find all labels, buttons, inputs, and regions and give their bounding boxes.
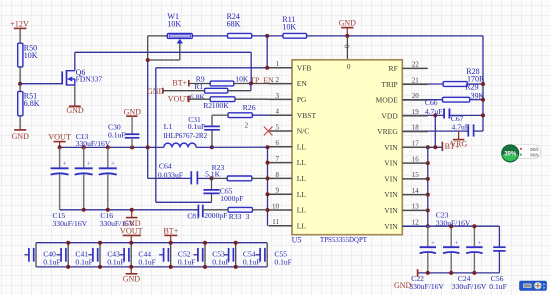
- capacitor C66: [402, 114, 444, 116]
- svg-text:GND: GND: [339, 18, 357, 27]
- svg-text:C64: C64: [159, 161, 172, 170]
- polarized cap at 451.2 right bank: [450, 226, 452, 247]
- capacitor C64: [190, 171, 192, 184]
- svg-text:16: 16: [412, 155, 420, 163]
- wire VFB left line: [156, 67, 267, 69]
- wire gate to Q6: [20, 83, 62, 85]
- svg-text:LL: LL: [297, 142, 307, 151]
- svg-text:17: 17: [412, 140, 420, 148]
- wire right bank bottom bus: [418, 272, 500, 274]
- svg-text:U5: U5: [292, 235, 302, 244]
- svg-text:VIN: VIN: [384, 190, 398, 199]
- pin 3 PG: [269, 98, 293, 100]
- capacitor C81: [197, 205, 199, 218]
- op-amp U5 TPS53355DQPT body: [292, 60, 402, 235]
- pin 4 VBST: [269, 114, 293, 116]
- pin 2 EN: [269, 83, 293, 85]
- capacitor C44: [123, 248, 125, 262]
- resistor R1: [163, 90, 205, 92]
- svg-text:1000pF: 1000pF: [220, 194, 243, 203]
- svg-text:TP_EN: TP_EN: [250, 75, 274, 84]
- svg-text:0K/s: 0K/s: [530, 147, 538, 152]
- svg-text:R1: R1: [194, 82, 203, 91]
- svg-text:C81: C81: [187, 211, 200, 220]
- overlay speed widget: [501, 144, 541, 163]
- svg-text:10: 10: [272, 202, 280, 210]
- wire bank tie x=68.2: [67, 243, 69, 267]
- pin 19 VDD: [402, 115, 428, 117]
- svg-text:LL: LL: [297, 221, 307, 230]
- svg-text:0K/s: 0K/s: [530, 153, 538, 158]
- polarized cap at 107.8: [107, 147, 109, 168]
- svg-text:3: 3: [276, 92, 280, 100]
- svg-text:0.1uF: 0.1uF: [243, 258, 261, 267]
- svg-text:+: +: [63, 161, 67, 168]
- svg-text:BT+: BT+: [445, 142, 460, 151]
- svg-text:0.1uF: 0.1uF: [489, 282, 507, 291]
- wire top rail: [192, 35, 483, 37]
- resistor R26: [252, 114, 268, 116]
- resistor R11: [283, 33, 307, 38]
- capacitor C55: [259, 248, 261, 262]
- svg-text:0.1uF: 0.1uF: [178, 258, 196, 267]
- svg-text:GND: GND: [12, 132, 30, 141]
- svg-text:VOUT: VOUT: [120, 227, 143, 236]
- svg-text:10K: 10K: [167, 20, 181, 29]
- node VIN pin13: [426, 208, 430, 212]
- svg-text:20: 20: [412, 92, 420, 100]
- resistor R9: [189, 83, 210, 85]
- svg-text:TRIP: TRIP: [381, 80, 397, 89]
- svg-text:L1: L1: [164, 122, 173, 131]
- ground port mid bus: [131, 210, 133, 218]
- node wiper junction: [146, 58, 150, 62]
- pin 15 VIN: [402, 178, 428, 180]
- svg-text:R26: R26: [243, 103, 256, 112]
- pin 12 VIN: [402, 225, 428, 227]
- capacitor C40: [28, 248, 30, 262]
- node C64-R23: [210, 176, 214, 180]
- node R29 gnd: [481, 98, 485, 102]
- wire EN to R1: [250, 84, 252, 91]
- wire gnd bus mid: [60, 209, 199, 211]
- pin 21 TRIP: [402, 83, 428, 85]
- svg-text:N/C: N/C: [297, 127, 310, 136]
- pin 11 LL: [269, 225, 293, 227]
- wire pin12 to bank: [402, 225, 499, 227]
- capacitor C65: [211, 178, 213, 189]
- svg-text:5.1K: 5.1K: [205, 169, 220, 178]
- svg-text:+: +: [478, 240, 482, 247]
- resistor R23: [227, 176, 252, 181]
- svg-text:7: 7: [276, 155, 280, 163]
- node VFB: [265, 66, 269, 70]
- svg-text:330uF/16V: 330uF/16V: [53, 219, 88, 228]
- svg-text:VOUT: VOUT: [48, 132, 71, 141]
- svg-text:19: 19: [412, 108, 420, 116]
- ground port bank: [130, 267, 132, 274]
- power port BT+ pin17: [402, 146, 442, 148]
- wire VFB vertical: [155, 68, 157, 203]
- svg-text:0.033uF: 0.033uF: [158, 171, 183, 180]
- pin 5 N/C: [269, 130, 293, 132]
- node VIN pin14: [426, 193, 430, 197]
- capacitor C41: [60, 248, 62, 262]
- svg-text:9: 9: [276, 187, 280, 195]
- svg-text:0.1uF: 0.1uF: [107, 258, 125, 267]
- svg-text:VDD: VDD: [381, 111, 398, 120]
- pin 0 top stub: [346, 36, 348, 60]
- node C66 left: [433, 113, 437, 117]
- pin 1 VFB: [269, 67, 293, 69]
- svg-text:FDN337: FDN337: [76, 75, 103, 84]
- svg-text:+: +: [431, 240, 435, 247]
- svg-text:+12V: +12V: [10, 19, 29, 28]
- node VIN bus bottom: [426, 224, 430, 228]
- wire bank tie x=205: [204, 243, 206, 267]
- power port VRG: [458, 131, 460, 139]
- wire VDD to VIN link: [434, 116, 436, 148]
- svg-text:10K: 10K: [235, 75, 249, 84]
- svg-text:5: 5: [276, 123, 280, 131]
- node LL pin10: [266, 208, 270, 212]
- svg-text:LL: LL: [297, 190, 307, 199]
- svg-text:6: 6: [276, 139, 280, 147]
- svg-text:GND: GND: [123, 274, 141, 283]
- pin 6 LL: [269, 146, 293, 148]
- svg-text:VIN: VIN: [384, 159, 398, 168]
- capacitor C30: [131, 116, 133, 134]
- svg-text:12: 12: [412, 218, 420, 226]
- node LL pin6: [266, 145, 270, 149]
- svg-text:VIN: VIN: [384, 143, 398, 152]
- svg-text:GND: GND: [66, 106, 84, 115]
- overlay IME bar: [520, 281, 547, 290]
- svg-text:GND: GND: [124, 107, 142, 116]
- pin 8 LL: [269, 177, 293, 179]
- svg-text:100K: 100K: [212, 101, 229, 110]
- svg-text:IHLP6767-2R2: IHLP6767-2R2: [163, 131, 207, 140]
- node C66 gnd: [481, 113, 485, 117]
- node LL pin7: [266, 161, 270, 165]
- wire bank tie x=267.2: [266, 243, 268, 267]
- svg-text:+: +: [111, 161, 115, 168]
- wire L1 to LL pin6: [196, 146, 268, 148]
- svg-text:RF: RF: [389, 64, 398, 73]
- svg-text:4.7uF: 4.7uF: [452, 123, 470, 132]
- wire bank tie x=235.7: [235, 243, 237, 267]
- wire W1 left lead: [148, 35, 168, 37]
- resistor R24: [228, 33, 252, 38]
- svg-text:R33: R33: [229, 212, 242, 221]
- node rail-VFB junction: [265, 34, 269, 38]
- capacitor C31: [211, 115, 213, 126]
- svg-text:330uF/16V: 330uF/16V: [436, 218, 471, 227]
- svg-text:+: +: [87, 161, 91, 168]
- svg-text:11: 11: [272, 218, 279, 226]
- wire C64 branch: [147, 147, 149, 178]
- capacitor C52: [163, 248, 165, 262]
- node gate junction: [18, 82, 22, 86]
- svg-text:330uF/16V: 330uF/16V: [409, 282, 444, 291]
- pin 17 VIN: [402, 146, 428, 148]
- svg-text:VIN: VIN: [384, 175, 398, 184]
- svg-text:PG: PG: [297, 95, 307, 104]
- wire bank bottom bus: [36, 266, 267, 268]
- node LL pin8: [266, 176, 270, 180]
- inductor L1 IHLP6767-2R2: [164, 143, 196, 147]
- svg-text:VBST: VBST: [297, 111, 317, 120]
- polarized cap at 59.6: [59, 147, 61, 168]
- pin 5 no-connect X: [264, 127, 273, 136]
- svg-text:22: 22: [412, 61, 420, 69]
- svg-text:BT+: BT+: [172, 78, 187, 87]
- svg-text:VIN: VIN: [384, 206, 398, 215]
- wire VFB drop: [266, 36, 268, 68]
- pin 16 VIN: [402, 162, 428, 164]
- svg-text:39%: 39%: [504, 152, 517, 158]
- node LL pin9: [266, 192, 270, 196]
- wire bank tie x=100: [99, 243, 101, 267]
- svg-text:0.1uF: 0.1uF: [108, 130, 126, 139]
- svg-text:2: 2: [245, 122, 249, 130]
- pin 14 VIN: [402, 194, 428, 196]
- capacitor C67: [402, 130, 468, 132]
- svg-text:LL: LL: [297, 206, 307, 215]
- resistor R2: [189, 98, 210, 100]
- wire VOUT bus: [60, 146, 164, 148]
- svg-text:2000pF: 2000pF: [204, 211, 227, 220]
- svg-text:15: 15: [412, 171, 420, 179]
- svg-text:+: +: [455, 240, 459, 247]
- svg-text:LL: LL: [297, 158, 307, 167]
- potentiometer W1: [167, 34, 192, 39]
- pin 7 LL: [269, 162, 293, 164]
- wire wiper return: [148, 59, 180, 61]
- pin 22 RF: [402, 67, 428, 69]
- svg-text:0.1uF: 0.1uF: [138, 258, 156, 267]
- svg-text:0.1uF: 0.1uF: [43, 258, 61, 267]
- capacitor C56: [498, 226, 500, 247]
- wire Q6 drain to EN node: [74, 52, 76, 70]
- resistor R33: [203, 209, 228, 211]
- ground Q6: [74, 85, 76, 106]
- resistor R50: [18, 43, 23, 67]
- svg-text:8: 8: [276, 171, 280, 179]
- svg-text:14: 14: [412, 187, 420, 195]
- svg-text:0: 0: [342, 44, 351, 48]
- svg-text:VFB: VFB: [297, 63, 312, 72]
- pin 20 MODE: [402, 99, 428, 101]
- polarized cap at 474.4 right bank: [473, 226, 475, 247]
- resistor R51: [18, 91, 23, 115]
- pin 18 VREG: [402, 131, 428, 133]
- pin 13 VIN: [402, 209, 428, 211]
- node VIN pin15: [426, 177, 430, 181]
- svg-text:330uF/16V: 330uF/16V: [452, 282, 487, 291]
- ground R51: [19, 116, 21, 130]
- svg-text:68K: 68K: [227, 20, 241, 29]
- svg-text:TPS53355DQPT: TPS53355DQPT: [320, 235, 367, 244]
- capacitor C54: [228, 248, 230, 262]
- svg-text:0.1uF: 0.1uF: [212, 258, 230, 267]
- svg-text:6.8K: 6.8K: [24, 99, 40, 108]
- capacitor C43: [92, 248, 94, 262]
- pin 9 LL: [269, 193, 293, 195]
- resistor R28: [402, 83, 443, 85]
- svg-text:LL: LL: [297, 174, 307, 183]
- svg-text:BT+: BT+: [163, 227, 178, 236]
- svg-text:2: 2: [276, 76, 280, 84]
- ground port right bank: [417, 269, 419, 277]
- svg-text:VIN: VIN: [384, 222, 398, 231]
- svg-text:0.1uF: 0.1uF: [75, 258, 93, 267]
- svg-text:10K: 10K: [282, 23, 296, 32]
- svg-text:EN: EN: [297, 79, 308, 88]
- svg-text:330uF/16V: 330uF/16V: [76, 139, 111, 148]
- wire VIN bus: [427, 147, 429, 226]
- capacitor C53: [197, 248, 199, 262]
- wire R50-R51: [19, 67, 21, 91]
- transistor Q6 FDN337: [61, 71, 63, 84]
- svg-text:VOUT: VOUT: [168, 95, 190, 104]
- node R28 gnd: [481, 82, 485, 86]
- node rail GND junction: [345, 34, 349, 38]
- node VIN pin16: [426, 161, 430, 165]
- svg-text:VREG: VREG: [377, 127, 398, 136]
- svg-text:21: 21: [412, 76, 420, 84]
- wire right gnd drop: [482, 36, 484, 131]
- polarized cap at 83.7: [83, 147, 85, 168]
- pin 10 LL: [269, 209, 293, 211]
- svg-text:0: 0: [347, 63, 351, 71]
- node C31-LL: [210, 145, 214, 149]
- svg-text:10K: 10K: [24, 51, 38, 60]
- wire bank tie x=36: [35, 243, 37, 267]
- svg-text:4: 4: [276, 108, 280, 116]
- wire bank tie x=131.2: [130, 243, 132, 267]
- svg-text:3: 3: [246, 212, 250, 221]
- svg-text:MODE: MODE: [375, 96, 398, 105]
- svg-text:0.1uF: 0.1uF: [188, 122, 206, 131]
- wire LL bus: [267, 147, 269, 226]
- svg-text:0.1uF: 0.1uF: [274, 258, 292, 267]
- wire bank top bus: [36, 242, 267, 244]
- svg-text:13: 13: [412, 203, 420, 211]
- svg-text:18: 18: [412, 124, 420, 132]
- polarized cap at 427.8 right bank: [427, 226, 429, 247]
- wire bank tie x=170.7: [170, 243, 172, 267]
- resistor R29: [402, 99, 442, 101]
- svg-text:1: 1: [276, 60, 280, 68]
